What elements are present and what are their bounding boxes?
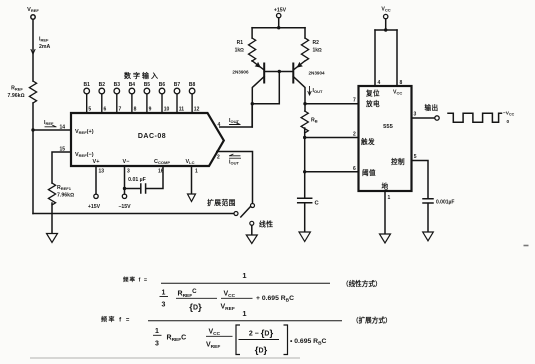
resistor R1 1k xyxy=(249,38,256,61)
svg-text:VCC: VCC xyxy=(393,90,402,96)
wire VCC rail split xyxy=(375,29,397,31)
node junction +15V rail xyxy=(277,26,280,29)
wire RREF1 to ground xyxy=(51,203,53,233)
transistor Q2 2N3904 xyxy=(293,61,305,104)
svg-text:B8: B8 xyxy=(189,82,196,88)
wire linear contact to ground xyxy=(251,225,253,234)
node VCC terminal 555 xyxy=(384,14,388,18)
node B5 input terminal xyxy=(144,88,150,112)
node junction Q2 collector RB xyxy=(303,102,306,105)
ground linear xyxy=(246,235,257,244)
ground control cap xyxy=(423,232,434,241)
ground RREF1 xyxy=(47,234,58,243)
svg-text:7: 7 xyxy=(119,107,122,113)
wire VLC pin1 to ground xyxy=(191,166,193,194)
svg-text:复位: 复位 xyxy=(365,89,380,98)
wire V+ pin13 to +15V terminal xyxy=(94,166,98,199)
wire VCC down xyxy=(385,19,387,30)
svg-text:4: 4 xyxy=(218,122,221,128)
svg-text:VCC: VCC xyxy=(381,7,390,13)
svg-text:频率 f =: 频率 f = xyxy=(123,276,148,284)
svg-text:6: 6 xyxy=(104,107,107,113)
svg-text:11: 11 xyxy=(179,107,185,113)
svg-text:2 − {D}: 2 − {D} xyxy=(249,328,274,339)
svg-text:B7: B7 xyxy=(174,82,181,88)
waveform square wave xyxy=(448,113,502,122)
svg-text:IREF: IREF xyxy=(39,37,49,43)
wire rail to R1 xyxy=(251,28,253,38)
svg-text:B1: B1 xyxy=(83,82,90,88)
svg-text:12: 12 xyxy=(194,107,200,113)
wire VREF down to RREF xyxy=(31,19,35,81)
svg-text:6: 6 xyxy=(353,166,356,172)
resistor R2 1k xyxy=(301,38,308,61)
wire RB top xyxy=(304,104,306,111)
wire IOUTbar pin2 down to switch xyxy=(217,152,253,204)
svg-text:B5: B5 xyxy=(144,82,151,88)
wire pin2 trigger xyxy=(305,137,358,139)
svg-text:1: 1 xyxy=(155,328,159,335)
label B1-B8 xyxy=(83,82,195,88)
svg-text:5: 5 xyxy=(88,107,91,113)
svg-text:+15V: +15V xyxy=(88,204,101,210)
wire RB to C xyxy=(304,128,306,198)
svg-text:（线性方式）: （线性方式） xyxy=(342,279,382,288)
node junction VCC rail xyxy=(384,28,387,31)
svg-text:VLC: VLC xyxy=(185,159,194,165)
node +15V terminal xyxy=(277,13,281,17)
wire IOUT pin4 to mirror xyxy=(220,105,252,128)
ground VLC xyxy=(188,194,196,202)
svg-text:0.001µF: 0.001µF xyxy=(436,200,454,206)
wire base tie Q1 Q2 xyxy=(264,71,293,73)
svg-text:1: 1 xyxy=(242,271,246,280)
capacitor C timing xyxy=(298,198,312,202)
wire V- pin3 to -15V terminal xyxy=(122,166,126,199)
svg-text:5: 5 xyxy=(414,154,417,160)
svg-text:输出: 输出 xyxy=(425,103,439,112)
wire R1 to Q1 emitter xyxy=(251,60,253,62)
node B8 input terminal xyxy=(189,88,195,112)
svg-text:16: 16 xyxy=(158,169,164,175)
resistor RB xyxy=(301,111,308,133)
svg-text:9: 9 xyxy=(149,107,152,113)
svg-text:13: 13 xyxy=(99,169,105,175)
wire switch horizontal from VREF+ node xyxy=(33,213,234,215)
svg-text:0: 0 xyxy=(507,119,510,125)
label pins 5-12 xyxy=(88,107,199,113)
svg-text:1: 1 xyxy=(162,290,166,297)
svg-text:7.96kΩ: 7.96kΩ xyxy=(8,93,25,99)
node switch contact linear xyxy=(250,221,254,225)
node output terminal xyxy=(435,116,439,120)
wire pin3 output xyxy=(412,117,435,119)
node switch contact pole xyxy=(234,212,238,216)
wire comp capacitor to pin16 xyxy=(146,166,163,189)
svg-text:V−: V− xyxy=(123,159,130,165)
wire pin4 reset xyxy=(374,30,376,86)
svg-text:2mA: 2mA xyxy=(39,44,50,50)
svg-text:7.96kΩ: 7.96kΩ xyxy=(57,193,74,199)
wire C to ground xyxy=(304,203,306,232)
node VREF terminal xyxy=(31,15,35,19)
svg-text:线性: 线性 xyxy=(259,220,273,229)
svg-text:15: 15 xyxy=(59,147,65,153)
svg-text:3: 3 xyxy=(414,112,417,118)
svg-text:触发: 触发 xyxy=(360,137,375,146)
node junction bases xyxy=(278,70,281,73)
svg-text:14: 14 xyxy=(59,125,65,131)
node B3 input terminal xyxy=(114,88,120,112)
wire pin5 control xyxy=(412,161,429,199)
node junction Q1 collector xyxy=(251,102,254,105)
wire rail to R2 xyxy=(304,28,306,38)
svg-text:−15V: −15V xyxy=(118,204,131,210)
svg-text:控制: 控制 xyxy=(391,157,405,166)
node junction V- comp cap xyxy=(123,187,126,190)
wire base down to collector tie xyxy=(252,72,279,104)
svg-text:555: 555 xyxy=(383,124,393,130)
svg-text:1: 1 xyxy=(195,169,198,175)
node switch contact extended-range xyxy=(251,204,255,208)
svg-text:地: 地 xyxy=(382,182,389,191)
svg-text:7: 7 xyxy=(353,98,356,104)
svg-text:B4: B4 xyxy=(129,82,136,88)
svg-text:IOUT: IOUT xyxy=(229,118,239,124)
svg-text:B6: B6 xyxy=(159,82,166,88)
wire RREF to VREF(+) node and down to switch xyxy=(32,103,34,214)
svg-text:3: 3 xyxy=(155,341,159,348)
wire control cap to ground xyxy=(427,203,429,231)
svg-text:3: 3 xyxy=(162,302,166,309)
node B1 input terminal xyxy=(84,88,90,112)
svg-text:{D}: {D} xyxy=(255,345,268,356)
svg-text:R1: R1 xyxy=(237,40,244,46)
svg-text:1: 1 xyxy=(242,309,246,318)
node junction pin14 xyxy=(31,128,34,131)
label IOUT2 arrow xyxy=(308,87,311,96)
formula 2 extended mode xyxy=(101,309,392,356)
svg-text:2N3906: 2N3906 xyxy=(232,70,249,75)
svg-text:2: 2 xyxy=(217,155,220,161)
wire pin6 threshold xyxy=(305,171,358,173)
node B7 input terminal xyxy=(174,88,180,112)
node B4 input terminal xyxy=(129,88,135,112)
svg-text:CCOMP: CCOMP xyxy=(154,159,170,165)
svg-text:RREF: RREF xyxy=(11,86,23,92)
svg-text:3: 3 xyxy=(127,169,130,175)
svg-text:VREF(−): VREF(−) xyxy=(75,152,94,158)
wire pin15 to RREF1 xyxy=(52,152,70,183)
svg-text:B2: B2 xyxy=(99,82,106,88)
svg-text:1kΩ: 1kΩ xyxy=(313,48,323,54)
wire supply rail xyxy=(252,27,305,29)
transistor Q1 2N3906 xyxy=(252,61,264,104)
svg-text:（扩展方式）: （扩展方式） xyxy=(352,316,392,325)
node junction pin2 trigger xyxy=(303,136,306,139)
svg-text:2: 2 xyxy=(353,132,356,138)
svg-text:V+: V+ xyxy=(93,159,100,165)
svg-text:10: 10 xyxy=(164,107,170,113)
svg-text:放电: 放电 xyxy=(365,99,380,108)
svg-text:数字输入: 数字输入 xyxy=(124,71,160,80)
svg-text:8: 8 xyxy=(134,107,137,113)
node B2 input terminal xyxy=(99,88,105,112)
label IOUT arrow xyxy=(230,123,241,125)
ground 555 pin1 xyxy=(380,234,391,243)
svg-text:4: 4 xyxy=(378,80,381,86)
formula 1 linear mode xyxy=(123,271,382,313)
svg-text:R2: R2 xyxy=(313,40,320,46)
scan speck xyxy=(524,245,529,247)
DAC U1 DAC-08 body xyxy=(71,113,224,166)
wire pin7 discharge xyxy=(305,103,358,105)
svg-text:1kΩ: 1kΩ xyxy=(235,48,245,54)
svg-text:DAC-08: DAC-08 xyxy=(138,133,166,140)
wire Q1 collector node to IOUT wire xyxy=(251,104,253,127)
svg-text:阈值: 阈值 xyxy=(362,168,376,177)
svg-text:2N3904: 2N3904 xyxy=(309,71,326,76)
svg-text:{D}: {D} xyxy=(189,302,202,313)
svg-text:VREF(+): VREF(+) xyxy=(75,129,94,135)
svg-text:IOUT: IOUT xyxy=(229,160,239,166)
wire IREF into pin 14 xyxy=(33,125,70,130)
svg-text:8: 8 xyxy=(400,80,403,86)
svg-text:B3: B3 xyxy=(114,82,121,88)
wire V- to comp capacitor xyxy=(125,188,141,190)
svg-text:+15V: +15V xyxy=(274,8,287,14)
svg-text:扩展范围: 扩展范围 xyxy=(207,198,236,207)
svg-text:VREF: VREF xyxy=(27,7,39,13)
wire switch blade xyxy=(241,206,251,217)
bottom rule xyxy=(30,357,300,359)
svg-text:IREF: IREF xyxy=(44,120,54,126)
node junction pin6 threshold xyxy=(303,170,306,173)
capacitor 0.001uF xyxy=(423,199,433,203)
ground timing cap xyxy=(299,232,310,242)
IC U2 555 timer body xyxy=(359,86,412,191)
label IOUTbar arrow xyxy=(230,154,241,156)
node B6 input terminal xyxy=(159,88,165,112)
wire pin8 vcc xyxy=(396,30,398,86)
svg-text:IOUT: IOUT xyxy=(313,88,323,94)
resistor RREF 7.96k xyxy=(29,81,36,103)
wire +15V to rail xyxy=(278,18,280,28)
svg-text:频率 f =: 频率 f = xyxy=(101,316,131,324)
svg-text:RREF1: RREF1 xyxy=(57,185,72,191)
svg-text:0.01 µF: 0.01 µF xyxy=(128,177,146,183)
svg-text:RB: RB xyxy=(311,118,318,124)
resistor RREF1 7.96k xyxy=(48,183,55,205)
svg-text:1: 1 xyxy=(388,195,391,201)
wire pin1 gnd xyxy=(384,191,386,234)
capacitor 0.01uF xyxy=(141,184,146,193)
